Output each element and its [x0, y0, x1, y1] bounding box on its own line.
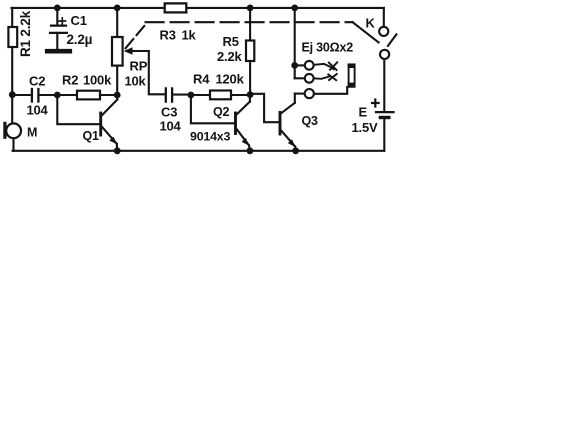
- resistor R3: [165, 3, 187, 12]
- svg-text:10k: 10k: [125, 74, 147, 89]
- junction node top RP: [114, 5, 121, 12]
- svg-text:R3: R3: [160, 28, 176, 43]
- svg-text:2.2k: 2.2k: [217, 49, 242, 64]
- svg-text:C1: C1: [71, 13, 87, 28]
- svg-text:Q1: Q1: [83, 129, 100, 143]
- junction node C2/R2/Q1 base: [54, 92, 61, 99]
- capacitor C1: [47, 8, 70, 51]
- wire left branch (R1 / mic): [11, 8, 13, 124]
- junction node Q3 emitter ground: [292, 147, 299, 154]
- svg-text:9014x3: 9014x3: [190, 130, 230, 144]
- wire Q2 base from C3/R4 node: [191, 95, 234, 123]
- svg-text:2.2µ: 2.2µ: [67, 32, 93, 47]
- wire jack terminal 3 to plug: [314, 87, 347, 94]
- wire mic to ground rail: [12, 138, 14, 151]
- svg-text:Q2: Q2: [213, 105, 230, 119]
- jack contact 1: [314, 62, 338, 70]
- junction node C3/R4/Q2 base: [188, 92, 195, 99]
- wire RP wiper to C3: [149, 51, 165, 94]
- earphone jack terminal 2: [305, 74, 314, 83]
- svg-text:120k: 120k: [216, 72, 245, 87]
- svg-text:Q3: Q3: [302, 114, 319, 128]
- svg-text:R2: R2: [62, 73, 78, 88]
- resistor R2: [77, 91, 117, 100]
- junction node Q1 emitter ground: [114, 147, 121, 154]
- junction node top jack: [291, 5, 298, 12]
- transistor Q2: [236, 95, 250, 151]
- earphone jack terminal 1: [305, 61, 314, 70]
- wire bottom ground rail: [13, 150, 385, 152]
- junction node top R5: [247, 5, 254, 12]
- transistor Q3: [280, 94, 305, 151]
- svg-text:C3: C3: [161, 105, 177, 120]
- svg-text:R4: R4: [193, 72, 210, 87]
- junction node Q2 emitter ground: [247, 147, 254, 154]
- svg-text:104: 104: [160, 119, 182, 134]
- switch K: [379, 8, 396, 110]
- transistor Q1: [101, 95, 118, 151]
- resistor R1: [8, 27, 17, 47]
- resistor R5: [246, 8, 254, 95]
- svg-text:Ej 30Ωx2: Ej 30Ωx2: [302, 41, 354, 55]
- capacitor C2: [12, 89, 77, 102]
- svg-text:1.5V: 1.5V: [352, 120, 378, 135]
- svg-text:RP: RP: [130, 59, 148, 74]
- junction node top C1: [54, 5, 61, 12]
- mechanical link dashed line RP to K: [126, 22, 379, 48]
- svg-text:1k: 1k: [182, 28, 197, 43]
- wire Q3 base from Q2 collector node: [250, 94, 279, 122]
- jack contact 2: [314, 74, 337, 80]
- wire top supply rail: [12, 7, 384, 9]
- svg-text:E: E: [359, 105, 368, 120]
- svg-text:M: M: [27, 126, 37, 140]
- junction node Q2 collector: [247, 91, 254, 98]
- svg-text:100k: 100k: [83, 73, 112, 88]
- earphone jack terminal 3: [305, 89, 314, 98]
- capacitor C3: [166, 88, 191, 101]
- junction node R1/C2/mic: [9, 91, 16, 98]
- microphone M: [3, 122, 21, 139]
- svg-text:K: K: [366, 16, 376, 31]
- junction node Q1 collector: [114, 92, 121, 99]
- earphone plug: [348, 64, 356, 87]
- wire Q1 base from C2/R2 node: [57, 95, 100, 124]
- resistor R4: [191, 91, 250, 100]
- svg-text:C2: C2: [29, 74, 45, 89]
- svg-text:R5: R5: [223, 34, 239, 49]
- svg-text:R1 2.2k: R1 2.2k: [18, 10, 33, 57]
- wire jack feed from top rail: [295, 8, 305, 78]
- potentiometer RP: [112, 8, 149, 95]
- svg-text:104: 104: [27, 103, 49, 118]
- battery E: [372, 100, 394, 151]
- junction node jack terminals 1-2: [291, 62, 298, 69]
